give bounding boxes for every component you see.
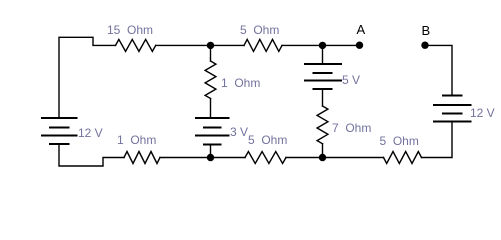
- resistor R3 1 Ohm (bottom left): [124, 152, 160, 164]
- wire node 3 to R4: [211, 157, 246, 159]
- wire top rail R1 to node 1: [156, 44, 211, 46]
- wire terminal B to right riser: [425, 45, 452, 95]
- svg-text:5 Ohm: 5 Ohm: [380, 134, 419, 148]
- battery V3 5V plates: [305, 63, 341, 65]
- wire right battery to bottom rail: [422, 122, 453, 158]
- resistor R5 5 Ohm (bottom right): [384, 152, 422, 164]
- svg-text:12 V: 12 V: [78, 126, 103, 140]
- svg-text:3 V: 3 V: [230, 125, 248, 139]
- svg-text:5 Ohm: 5 Ohm: [248, 133, 287, 147]
- wire battery V2 to bottom node 3: [210, 145, 212, 158]
- svg-text:A: A: [357, 22, 366, 37]
- svg-text:B: B: [422, 23, 431, 38]
- junction node 1 (top left): [207, 42, 214, 49]
- svg-text:12 V: 12 V: [470, 106, 495, 120]
- wire R3 to node 3: [160, 157, 211, 159]
- svg-text:15 Ohm: 15 Ohm: [107, 23, 153, 37]
- svg-text:5 V: 5 V: [342, 73, 360, 87]
- svg-text:5 Ohm: 5 Ohm: [240, 23, 279, 37]
- resistor R7 7 Ohm (vertical middle-right branch): [317, 106, 328, 144]
- wire R6 to battery V2: [210, 99, 212, 119]
- resistor R2 5 Ohm (top): [244, 39, 282, 51]
- battery V4 12V right plates: [443, 95, 462, 97]
- svg-text:1 Ohm: 1 Ohm: [117, 133, 156, 147]
- svg-text:1 Ohm: 1 Ohm: [221, 76, 260, 90]
- wire top-left riser from battery V1: [59, 37, 116, 118]
- svg-text:7 Ohm: 7 Ohm: [332, 121, 371, 135]
- battery V2 3V plates: [196, 117, 229, 119]
- terminal B dot: [421, 42, 428, 49]
- junction node 2 (top right): [319, 42, 326, 49]
- terminal A dot: [356, 42, 363, 49]
- junction node 4 (bottom right): [319, 154, 326, 161]
- wire R7 to bottom node 4: [322, 144, 324, 158]
- wire R2 to node 2: [282, 44, 323, 46]
- wire battery V3 to R7: [322, 89, 324, 106]
- junction node 3 (bottom left): [207, 154, 214, 161]
- resistor R1 15 Ohm (top left): [116, 39, 156, 51]
- wire bottom-left step to battery V1: [59, 144, 124, 166]
- wire node 1 down to R6: [210, 45, 212, 61]
- wire node 1 to R2: [211, 44, 245, 46]
- wire bottom node 3 to node 4 segment with R4: [286, 157, 323, 159]
- resistor R4 5 Ohm (bottom middle): [245, 152, 286, 164]
- wire node 2 down to battery V3: [322, 45, 324, 64]
- resistor R6 1 Ohm (vertical middle-left branch): [205, 61, 216, 98]
- battery V1 12V left plates: [42, 117, 77, 119]
- wire node 2 to terminal A: [323, 44, 360, 46]
- wire bottom node 4 to R5: [323, 157, 384, 159]
